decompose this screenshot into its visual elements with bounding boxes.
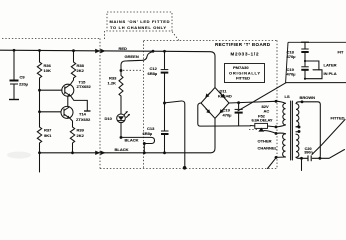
fuse F52 xyxy=(251,113,277,128)
node black-0V xyxy=(143,151,146,154)
terminal node on board edge xyxy=(183,166,187,170)
svg-text:6R8µ: 6R8µ xyxy=(143,131,153,136)
svg-text:ZTX652: ZTX652 xyxy=(77,84,92,89)
node rail-R36 xyxy=(38,49,41,52)
svg-text:FIT: FIT xyxy=(338,50,345,55)
board boundary dashed line top-left xyxy=(2,38,100,40)
svg-text:LS: LS xyxy=(285,94,290,99)
wire bridge to transformer top xyxy=(229,101,276,103)
node primary tap upper xyxy=(298,126,301,129)
transformer primary winding upper xyxy=(296,104,299,127)
svg-text:10K: 10K xyxy=(44,68,51,73)
note box FITTED LATER xyxy=(286,42,346,82)
node C19 tap xyxy=(304,78,306,80)
transformer secondary lower winding xyxy=(276,133,286,157)
node rail-C12 xyxy=(163,50,166,53)
capacitor C19 later xyxy=(287,67,309,79)
node R36-T15 base xyxy=(38,89,41,92)
node green-R33 xyxy=(120,69,123,72)
node C19 top xyxy=(237,101,240,104)
wire C18 tap xyxy=(305,61,319,70)
transistor T14 xyxy=(61,106,91,121)
node LED-black xyxy=(120,136,123,139)
wire T15 to T14 xyxy=(67,96,69,106)
svg-text:6R8µ: 6R8µ xyxy=(148,71,158,76)
wire R36 node down to T14 node xyxy=(39,90,41,112)
ground bar T15 xyxy=(84,110,91,112)
wire black jog from LED to 0V xyxy=(121,137,155,152)
transistor T15 xyxy=(62,80,92,97)
wire mains stub down xyxy=(301,158,303,170)
resistor R36 xyxy=(37,52,51,91)
note box PM7A30 xyxy=(225,64,265,83)
node C20 left xyxy=(300,157,303,160)
capacitor C12 xyxy=(148,52,169,104)
svg-text:R39: R39 xyxy=(77,128,85,133)
svg-text:MAINS ‘ON’ LED FITTED: MAINS ‘ON’ LED FITTED xyxy=(110,19,170,24)
svg-text:TO LH CHANNEL ONLY: TO LH CHANNEL ONLY xyxy=(110,25,166,30)
resistor R38 xyxy=(71,52,85,84)
wire 0V rail bottom xyxy=(40,118,216,153)
svg-text:FITTED: FITTED xyxy=(236,76,250,81)
capacitor C13 xyxy=(143,103,169,153)
label RECTIFIER T BOARD xyxy=(215,42,271,47)
wire 0V exit down xyxy=(39,153,41,172)
transformer secondary upper winding xyxy=(276,101,286,127)
label LS xyxy=(285,94,290,99)
svg-text:KBU4D: KBU4D xyxy=(218,94,232,99)
label FITTED right edge xyxy=(312,115,345,154)
svg-text:470µ: 470µ xyxy=(223,113,233,118)
node primary top BROWN xyxy=(301,100,304,103)
svg-text:OTHER: OTHER xyxy=(258,139,272,144)
svg-text:9K1: 9K1 xyxy=(44,133,52,138)
svg-text:FITTED: FITTED xyxy=(331,115,345,120)
terminal node other channel bottom xyxy=(275,156,278,159)
svg-text:470µ: 470µ xyxy=(287,72,297,77)
capacitor C19 xyxy=(223,103,243,126)
leader line from note box to C19 xyxy=(238,83,286,111)
resistor R33 xyxy=(108,71,124,115)
rectifier board dashed right edge xyxy=(276,40,278,168)
wire bridge AC loop left xyxy=(198,103,251,126)
svg-text:GREEN: GREEN xyxy=(125,54,139,59)
svg-text:D10: D10 xyxy=(105,116,113,121)
label BLACK on 0V rail xyxy=(115,147,129,152)
ground bar C9 xyxy=(9,99,19,101)
svg-text:RECTIFIER ‘T’ BOARD: RECTIFIER ‘T’ BOARD xyxy=(215,42,271,47)
note box MAINS ON LED xyxy=(107,12,172,31)
wire C19 tap xyxy=(305,70,322,79)
label BLACK at LED xyxy=(125,137,139,142)
label OTHER CHANNEL xyxy=(258,139,278,151)
svg-text:C9: C9 xyxy=(20,75,26,80)
svg-text:IN PLA: IN PLA xyxy=(324,71,337,76)
wire primary loop xyxy=(296,102,320,159)
board boundary dashed vertical left xyxy=(99,39,101,169)
LED box dashed vertical right xyxy=(143,41,145,169)
arrows on 0V rail xyxy=(95,151,105,155)
node rail-green xyxy=(152,50,155,53)
transformer primary winding lower xyxy=(296,132,299,158)
transformer core xyxy=(291,101,293,160)
svg-text:CHANNEL: CHANNEL xyxy=(258,145,278,150)
label GREEN xyxy=(125,54,139,59)
wire mains exit diagonal xyxy=(320,150,344,159)
resistor R37 xyxy=(37,112,52,153)
dashed other channel feed with arrow xyxy=(249,128,276,134)
svg-text:6.3A DELAY: 6.3A DELAY xyxy=(252,118,273,123)
capacitor C9 xyxy=(10,52,29,100)
dashed stub right of green node xyxy=(123,69,143,71)
LED D10 xyxy=(105,111,130,122)
terminal node other channel top xyxy=(275,132,278,135)
resistor R39 xyxy=(70,118,85,153)
svg-text:BLACK: BLACK xyxy=(125,137,139,142)
label BROWN xyxy=(300,95,316,100)
svg-text:RED: RED xyxy=(119,46,128,51)
node C20 right xyxy=(318,157,321,160)
wire primary bottom to winding xyxy=(296,157,302,158)
svg-text:M2033-1/2: M2033-1/2 xyxy=(231,51,259,56)
node T14 base xyxy=(38,110,41,113)
svg-text:LATER: LATER xyxy=(324,63,337,68)
node rail-R38 xyxy=(72,49,75,52)
svg-text:BROWN: BROWN xyxy=(300,95,316,100)
wire branch to terminal xyxy=(165,101,185,168)
node 0V-R37 xyxy=(38,151,41,154)
board boundary dashed line middle xyxy=(144,39,210,41)
faint smudge xyxy=(7,152,31,159)
label 82V AC xyxy=(262,104,270,113)
svg-text:ZTX652: ZTX652 xyxy=(76,117,91,122)
svg-text:220µ: 220µ xyxy=(19,81,29,86)
wire GREEN from rail to LED node xyxy=(121,52,153,71)
node 0V-R39 xyxy=(71,151,74,154)
terminal bar above C18 xyxy=(301,41,309,43)
wire +rail top xyxy=(0,50,215,87)
label RED xyxy=(119,46,128,51)
capacitor C18 xyxy=(287,42,309,66)
svg-text:1.2K: 1.2K xyxy=(108,81,117,86)
terminal node transformer top xyxy=(275,100,278,103)
dashed connector from MAINS box to LED box left xyxy=(104,31,106,40)
bridge rectifier D11 xyxy=(201,88,232,119)
svg-text:2K2: 2K2 xyxy=(77,68,85,73)
label M2033-1/2 xyxy=(231,51,259,56)
dashed connector from MAINS box to boundary right xyxy=(172,32,179,41)
node rail-C9 xyxy=(13,49,16,52)
svg-text:BLACK: BLACK xyxy=(115,147,129,152)
terminal node fuse out xyxy=(275,125,278,128)
svg-text:AC: AC xyxy=(264,108,270,113)
node C13-0V xyxy=(163,151,166,154)
capacitor C20 xyxy=(302,147,314,161)
svg-text:470µ: 470µ xyxy=(287,54,297,59)
node C12-C13 branch xyxy=(163,102,166,105)
boards dashed bottom edge xyxy=(100,168,277,170)
wire LED cathode down xyxy=(120,123,122,138)
node C18 tap xyxy=(304,60,306,62)
svg-text:R37: R37 xyxy=(44,128,52,133)
svg-text:2K2: 2K2 xyxy=(77,133,85,138)
wire T15 base xyxy=(40,89,63,91)
node primary tap lower xyxy=(298,130,301,133)
rectifier board dashed top edge xyxy=(209,39,277,41)
wire T15 emitter to ground stub xyxy=(71,96,87,110)
wire T14 base xyxy=(40,111,62,113)
wire other channel exit diagonal xyxy=(268,158,277,169)
arrows on +rail xyxy=(95,49,105,53)
node black jog xyxy=(143,142,146,145)
